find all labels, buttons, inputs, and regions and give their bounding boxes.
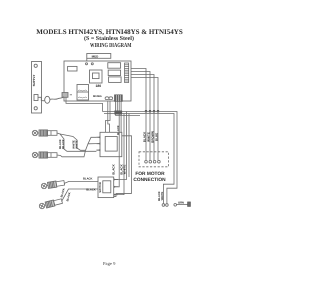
wire L2 out [57, 150, 86, 157]
ground lead [174, 204, 188, 207]
svg-text:WHITE: WHITE [75, 140, 78, 149]
capacitor ovals [62, 93, 113, 100]
relay K3 [109, 77, 122, 83]
svg-text:BLACK: BLACK [60, 188, 65, 198]
relay K1 [108, 63, 121, 68]
grommet [45, 96, 50, 103]
svg-text:Page 9: Page 9 [103, 261, 116, 266]
connector strip J1 [125, 63, 129, 83]
riser to lower box pin3 [118, 114, 124, 195]
drop to upper box top [106, 101, 111, 132]
svg-text:180: 180 [96, 84, 102, 88]
wire M1 [131, 69, 146, 111]
wire L1b [60, 134, 86, 150]
wire L4 to box [62, 189, 99, 202]
board edge plug [62, 93, 68, 98]
wire M3 lower [153, 113, 155, 161]
wire to pin1 [88, 137, 96, 144]
IC U2 [90, 70, 103, 83]
stub bottom right [114, 194, 132, 197]
wire M2 [131, 72, 150, 111]
svg-text:BLACK: BLACK [86, 188, 95, 191]
short stub line [116, 115, 141, 117]
lamp wires upper [57, 133, 96, 157]
board bottom harness [106, 101, 132, 194]
supply wire to board [50, 97, 64, 100]
svg-text:BLACK: BLACK [112, 163, 116, 174]
main supply bus wires [103, 112, 178, 207]
svg-text:CONNECTION: CONNECTION [133, 177, 166, 183]
relay small top-left [68, 66, 77, 71]
dark connector block CN1 [115, 95, 123, 102]
svg-text:SWITCH: SWITCH [99, 182, 102, 193]
bus wire B [104, 114, 174, 204]
svg-text:SUPPLY: SUPPLY [32, 75, 36, 87]
drop2 to upper box top [108, 101, 110, 132]
connector two-cell J2 [77, 85, 89, 101]
link wire upper box to right [122, 136, 132, 194]
harness drop 1 [114, 101, 116, 115]
svg-text:WHITE: WHITE [122, 165, 126, 175]
svg-text:MED: MED [92, 54, 100, 58]
wire M4 [131, 78, 158, 111]
svg-text:BLACK: BLACK [117, 125, 120, 134]
bus wire A [103, 112, 178, 204]
terminal box left [32, 62, 65, 114]
svg-text:BLACK: BLACK [83, 177, 92, 180]
ground block [188, 202, 191, 207]
svg-text:BLACK: BLACK [66, 192, 71, 202]
svg-text:MODELS HTNI42YS, HTNI48YS & HT: MODELS HTNI42YS, HTNI48YS & HTNI54YS [36, 28, 183, 36]
board top circles [86, 63, 88, 65]
wire M3 [131, 75, 154, 111]
terminal circles [162, 204, 165, 207]
jumper box above board [87, 54, 111, 59]
lamp L3 [41, 180, 65, 190]
svg-text:M10BA: M10BA [93, 95, 102, 98]
motor connection dashed box [139, 152, 169, 167]
junction marks on bus [114, 112, 122, 114]
lamp L2 [32, 152, 57, 158]
lamp L4 [39, 198, 63, 210]
svg-text:WIRING DIAGRAM: WIRING DIAGRAM [90, 42, 132, 49]
switch on terminal box [34, 95, 38, 101]
lower switch box SW2 [98, 177, 132, 198]
wire M2 lower [149, 113, 151, 161]
lamp wires lower [62, 181, 99, 201]
svg-text:GRN: GRN [178, 201, 184, 204]
svg-text:BLACK: BLACK [62, 139, 65, 148]
harness drop 4 to upper box [120, 101, 122, 132]
wire M1 lower [145, 113, 147, 161]
svg-text:WHITE: WHITE [161, 191, 164, 200]
pins right [114, 180, 118, 195]
relay K2 [108, 70, 120, 75]
control board outline [64, 61, 131, 101]
pins left arrows [96, 137, 100, 150]
harness drop 2 [116, 101, 118, 113]
riser extra [128, 114, 130, 178]
wire to pin2 [86, 144, 97, 151]
lamp L1 [32, 130, 57, 136]
wire M4 lower [157, 113, 159, 161]
motor wires from board right [131, 69, 159, 161]
upper switch box SW1 [96, 132, 121, 156]
supply feed wire under board [66, 97, 103, 111]
svg-text:FOR MOTOR: FOR MOTOR [135, 171, 165, 177]
svg-text:BLUE: BLUE [155, 133, 159, 141]
harness drop 3 to lower box pin [118, 101, 119, 186]
wire L3 to box [64, 181, 98, 183]
wire L1 down [57, 133, 96, 151]
inline connectors on motor wires [145, 110, 159, 112]
riser to lower box pin1 [118, 112, 127, 180]
